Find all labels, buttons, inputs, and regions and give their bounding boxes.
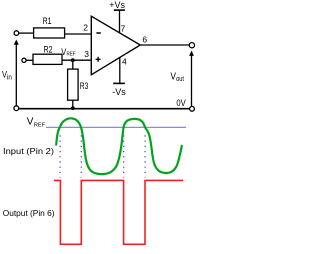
svg-text:Output (Pin 6): Output (Pin 6) (3, 208, 55, 218)
svg-text:3: 3 (84, 49, 89, 59)
svg-text:REF: REF (34, 122, 46, 128)
svg-text:REF: REF (67, 51, 76, 57)
svg-text:R2: R2 (44, 45, 53, 55)
svg-text:4: 4 (122, 57, 127, 67)
svg-text:0V: 0V (176, 98, 185, 108)
svg-text:V: V (27, 117, 34, 128)
svg-text:+Vs: +Vs (109, 0, 125, 10)
svg-text:7: 7 (121, 23, 126, 33)
svg-text:in: in (7, 72, 12, 81)
svg-text:2: 2 (83, 23, 88, 33)
svg-text:6: 6 (142, 35, 147, 45)
svg-text:R3: R3 (80, 81, 89, 91)
svg-text:R1: R1 (43, 16, 52, 26)
svg-text:-Vs: -Vs (112, 87, 126, 97)
svg-text:out: out (176, 74, 185, 83)
svg-text:Input (Pin 2): Input (Pin 2) (3, 146, 54, 156)
